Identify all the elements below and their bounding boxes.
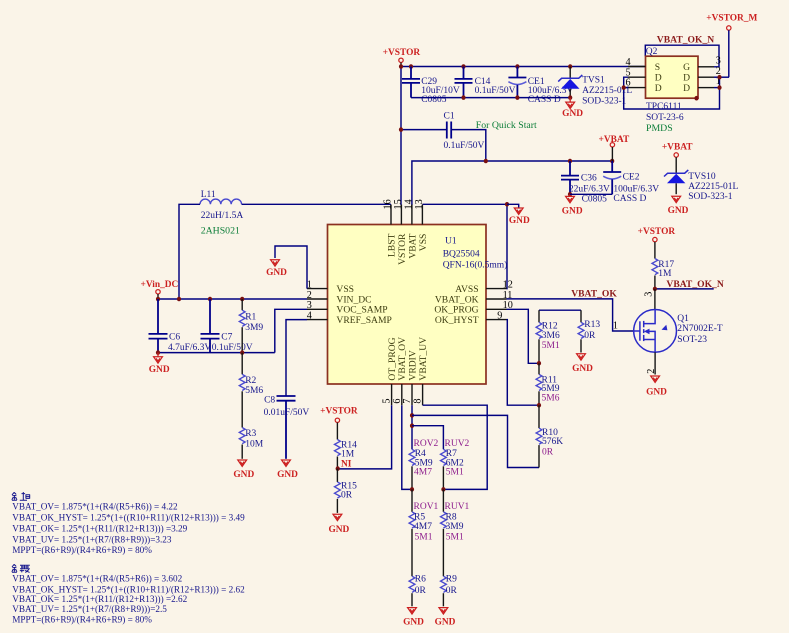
svg-text:RUV1: RUV1	[445, 502, 470, 512]
U1 left pin stubs	[307, 289, 328, 320]
svg-text:0R: 0R	[341, 490, 353, 500]
U1 right pin numbers	[497, 279, 513, 321]
svg-text:100uF/6.3V: 100uF/6.3V	[613, 184, 659, 194]
svg-text:GND: GND	[277, 470, 298, 480]
junction dot ROV mid	[410, 487, 414, 492]
TVS diode TVS10	[664, 170, 739, 202]
svg-text:+VSTOR: +VSTOR	[638, 227, 676, 237]
Q2 pin 2 wire	[698, 76, 729, 78]
wire VBAT_OK_N to Q2 gate	[645, 45, 719, 67]
U1 top pin stubs	[391, 205, 422, 225]
svg-text:GND: GND	[403, 617, 424, 627]
U1 right pin names	[434, 284, 478, 326]
svg-text:GND: GND	[562, 109, 583, 119]
U1 left pin numbers	[307, 279, 312, 321]
svg-text:VBAT_OK= 1.25*(1+(R11/(R12+R13: VBAT_OK= 1.25*(1+(R11/(R12+R13))) =3.29	[12, 524, 187, 534]
resistor R6	[409, 575, 426, 607]
resistor R15	[335, 469, 358, 513]
svg-text:5M6: 5M6	[542, 394, 560, 404]
svg-text:VBAT_OK_HYST= 1.25*(1+((R10+R1: VBAT_OK_HYST= 1.25*(1+((R10+R11)/(R12+R1…	[12, 584, 245, 594]
svg-text:S: S	[655, 62, 660, 73]
junction dot R11 bottom	[537, 403, 541, 408]
capacitor C1 quick start	[444, 112, 485, 151]
ground below TVS10	[668, 196, 689, 216]
svg-text:3M6: 3M6	[542, 331, 560, 341]
svg-text:C36: C36	[581, 174, 597, 184]
svg-text:0.01uF/50V: 0.01uF/50V	[264, 408, 310, 418]
svg-text:R7: R7	[446, 449, 457, 459]
junction dots VBAT rail	[484, 159, 615, 164]
svg-text:4M7: 4M7	[414, 522, 432, 532]
svg-text:10M: 10M	[245, 439, 264, 449]
svg-text:0R: 0R	[446, 586, 458, 596]
transistor Q2 body	[646, 47, 699, 98]
svg-text:7: 7	[402, 399, 413, 404]
U1 bottom pin stubs	[392, 384, 423, 405]
power port +VSTOR_M	[706, 13, 757, 77]
svg-text:C7: C7	[221, 333, 232, 343]
svg-text:GND: GND	[149, 365, 170, 375]
power port +VBAT first	[599, 135, 630, 161]
transistor Q1 NMOS	[634, 310, 723, 353]
ground below R15	[328, 514, 349, 535]
resistor R10	[536, 405, 563, 467]
svg-text:MPPT=(R6+R9)/(R4+R6+R9) = 80%: MPPT=(R6+R9)/(R4+R6+R9) = 80%	[12, 615, 152, 625]
svg-text:VSTOR: VSTOR	[397, 233, 408, 265]
ground left of U1 pin1	[266, 246, 307, 289]
svg-text:5M1: 5M1	[415, 533, 433, 543]
svg-text:AZ2215-01L: AZ2215-01L	[688, 182, 738, 192]
svg-text:22uF/6.3V: 22uF/6.3V	[569, 184, 610, 194]
IC U1 body	[328, 225, 508, 385]
Q2 footprint labels	[646, 102, 684, 134]
svg-text:5M1: 5M1	[446, 468, 464, 478]
svg-text:R13: R13	[584, 320, 600, 330]
svg-text:RUV2: RUV2	[445, 439, 470, 449]
svg-text:VBAT_UV= 1.25*(1+(R7/(R8+R9))): VBAT_UV= 1.25*(1+(R7/(R8+R9)))=2.5	[12, 604, 167, 614]
junction dot pin12/13	[505, 202, 509, 207]
svg-text:8: 8	[413, 399, 424, 404]
svg-text:GND: GND	[328, 525, 349, 535]
junction dots caps bottom rail	[461, 95, 572, 100]
svg-text:C1: C1	[444, 112, 455, 122]
resistor R4 ROV2	[409, 439, 438, 489]
ground below R6	[403, 608, 424, 628]
svg-text:+Vin_DC: +Vin_DC	[141, 280, 179, 290]
resistor R17	[652, 259, 674, 289]
svg-text:CE2: CE2	[623, 173, 640, 183]
svg-text:5M6: 5M6	[245, 386, 263, 396]
U1 top pin numbers 16 15 14 13	[382, 199, 424, 209]
wire pin12 riser	[506, 204, 509, 288]
wire bottom Vin cap rail	[158, 352, 275, 354]
svg-text:14: 14	[403, 199, 414, 209]
wire Q2 drains left loop	[624, 77, 720, 109]
Q2 pin 3 stub	[698, 66, 714, 68]
svg-text:C0805: C0805	[421, 95, 447, 105]
svg-text:R5: R5	[414, 513, 425, 523]
svg-text:GND: GND	[509, 216, 530, 226]
junction dot VRDIV lower	[410, 423, 414, 428]
power port +VBAT second	[662, 142, 693, 173]
svg-text:SOT-23: SOT-23	[677, 335, 707, 345]
svg-text:GND: GND	[233, 470, 254, 480]
Q2 pin 4 stub	[628, 66, 646, 68]
TVS diode TVS1	[558, 67, 632, 107]
resistor R13	[578, 310, 600, 352]
capacitor C8	[264, 396, 310, 459]
svg-text:VBAT_OK_HYST= 1.25*(1+((R10+R1: VBAT_OK_HYST= 1.25*(1+((R10+R11)/(R12+R1…	[12, 513, 245, 523]
svg-text:D: D	[683, 72, 690, 83]
capacitor C14	[455, 67, 516, 98]
wire C1 left	[401, 129, 447, 131]
Q2 pin 6 wire	[628, 87, 646, 89]
wire CE2 bottom to C36 bottom	[570, 193, 612, 195]
label lithium iron heading	[12, 564, 30, 572]
svg-text:GND: GND	[562, 207, 583, 217]
svg-text:0R: 0R	[584, 331, 596, 341]
svg-text:VBAT_OV= 1.875*(1+(R4/(R5+R6)): VBAT_OV= 1.875*(1+(R4/(R5+R6)) = 4.22	[12, 501, 178, 511]
svg-text:GND: GND	[266, 268, 287, 278]
ground below C36	[562, 194, 583, 216]
svg-text:VBAT_OV= 1.875*(1+(R4/(R5+R6)): VBAT_OV= 1.875*(1+(R4/(R5+R6)) = 3.602	[12, 573, 182, 583]
Q1 source stem	[654, 352, 656, 374]
svg-text:GND: GND	[435, 617, 456, 627]
svg-text:LBST: LBST	[386, 233, 397, 257]
svg-text:3M9: 3M9	[446, 522, 464, 532]
power port +Vin_DC	[141, 280, 179, 299]
resistor R8 RUV1	[441, 489, 470, 576]
svg-text:G: G	[683, 62, 690, 73]
junction dots Vin rail	[156, 297, 244, 302]
svg-text:SOD-323-1: SOD-323-1	[582, 96, 627, 106]
svg-text:0.1uF/50V: 0.1uF/50V	[212, 343, 253, 353]
svg-text:5M1: 5M1	[542, 341, 560, 351]
svg-text:QFN-16(0.5mm): QFN-16(0.5mm)	[443, 260, 508, 271]
junction dot R14 R15	[336, 466, 340, 471]
wire caps bottom rail	[411, 97, 570, 99]
junction dot C36 bottom	[568, 192, 572, 197]
wire VBAT rail	[412, 161, 612, 205]
ground at pin13	[507, 204, 530, 226]
U1 top pin names	[386, 233, 428, 265]
svg-text:12: 12	[503, 279, 513, 290]
svg-text:D: D	[655, 83, 662, 94]
svg-text:1M: 1M	[341, 450, 355, 460]
svg-text:1M: 1M	[658, 269, 672, 279]
svg-text:VBAT_OK: VBAT_OK	[571, 289, 617, 300]
svg-text:C8: C8	[264, 396, 275, 406]
svg-text:R12: R12	[542, 322, 558, 332]
svg-text:GND: GND	[668, 206, 689, 216]
resistor R2	[239, 353, 263, 428]
svg-text:VREF_SAMP: VREF_SAMP	[336, 315, 391, 326]
wire pin11 VBAT_OK	[507, 299, 634, 331]
ground below C8	[277, 460, 298, 480]
wire pin3 VOC_SAMP	[275, 309, 307, 352]
svg-text:+VBAT: +VBAT	[662, 142, 693, 152]
resistor R12	[536, 310, 560, 363]
ground below Q1	[646, 376, 667, 397]
svg-text:VSS: VSS	[336, 284, 354, 295]
svg-text:2AHS021: 2AHS021	[201, 225, 240, 236]
Q2 pin numbers	[626, 55, 721, 88]
wire VRDIV to R10 bottom	[412, 415, 539, 467]
svg-text:R6: R6	[415, 575, 426, 585]
ground below R13	[572, 354, 593, 374]
svg-text:3M9: 3M9	[245, 323, 263, 333]
svg-text:3: 3	[716, 55, 721, 66]
svg-text:TVS10: TVS10	[688, 172, 716, 182]
svg-text:R4: R4	[415, 449, 426, 459]
junction dot R17 drain	[653, 287, 657, 292]
inductor L11	[200, 190, 243, 236]
capacitor CE1 polarized	[508, 67, 573, 105]
ground below R3	[233, 460, 254, 480]
svg-text:1: 1	[613, 320, 618, 331]
wire pin9 OK_HYST	[507, 320, 540, 406]
svg-text:CASS D: CASS D	[528, 95, 561, 105]
svg-text:Q1: Q1	[677, 314, 689, 324]
wire R12 R13 bridge	[539, 309, 581, 311]
junction dots top rail	[399, 64, 572, 69]
svg-text:16: 16	[382, 199, 393, 209]
svg-text:9: 9	[497, 310, 502, 321]
svg-text:R8: R8	[446, 513, 457, 523]
power port +VSTOR at Q1	[638, 227, 676, 258]
svg-text:R2: R2	[245, 376, 256, 386]
resistor R7 RUV2	[441, 439, 470, 489]
svg-text:R1: R1	[245, 313, 256, 323]
svg-text:0R: 0R	[415, 586, 427, 596]
resistor R3	[239, 428, 263, 459]
power port +VSTOR at R14	[320, 407, 358, 440]
capacitor CE2 polarized	[603, 161, 659, 204]
junction dot R12 bottom	[537, 361, 541, 366]
svg-text:CASS D: CASS D	[613, 194, 646, 204]
svg-text:D: D	[655, 72, 662, 83]
svg-text:+VSTOR: +VSTOR	[320, 407, 358, 417]
wire pin13 to GND corner	[422, 203, 507, 205]
resistor R9	[441, 575, 458, 607]
resistor R1	[239, 299, 263, 353]
junction dots bottom rail	[156, 350, 244, 355]
resistor R14	[335, 440, 358, 469]
svg-text:R3: R3	[245, 429, 256, 439]
ground below TVS1	[562, 98, 583, 119]
svg-text:4: 4	[307, 310, 312, 321]
svg-text:C6: C6	[169, 333, 180, 343]
svg-text:5M1: 5M1	[446, 533, 464, 543]
wire pin8 VBAT_UV	[423, 405, 488, 489]
U1 left pin names	[336, 284, 391, 326]
svg-text:C0805: C0805	[582, 195, 608, 205]
svg-text:PMDS: PMDS	[646, 123, 673, 134]
svg-text:VBAT: VBAT	[407, 233, 418, 258]
svg-text:VBAT_UV= 1.25*(1+(R7/(R8+R9))): VBAT_UV= 1.25*(1+(R7/(R8+R9)))=3.23	[12, 535, 172, 545]
svg-text:SOT-23-6: SOT-23-6	[646, 113, 684, 123]
capacitor C29	[402, 67, 460, 105]
svg-text:BQ25504: BQ25504	[443, 250, 480, 260]
svg-text:For Quick Start: For Quick Start	[476, 120, 537, 131]
svg-text:NI: NI	[341, 459, 352, 469]
ground below R9	[435, 608, 456, 628]
wire Vin rail	[158, 298, 307, 300]
svg-text:4M7: 4M7	[414, 468, 432, 478]
wire pin6 VBAT_OV	[402, 405, 412, 489]
U1 bottom pin names	[387, 337, 429, 381]
svg-text:TPC6111: TPC6111	[646, 102, 682, 112]
svg-text:MPPT=(R6+R9)/(R4+R6+R9) = 80%: MPPT=(R6+R9)/(R4+R6+R9) = 80%	[12, 545, 152, 555]
svg-text:0R: 0R	[542, 448, 554, 458]
svg-text:0.1uF/50V: 0.1uF/50V	[444, 141, 485, 151]
wire VSTOR vertical to pin15	[400, 67, 402, 206]
svg-text:VBAT_UV: VBAT_UV	[418, 337, 429, 381]
Q2 pin names	[655, 62, 690, 94]
wire pin5 OT_PROG	[338, 405, 392, 469]
wire VSTOR top rail	[401, 66, 646, 68]
svg-text:TVS1: TVS1	[582, 76, 605, 86]
junction dot C1 tap	[399, 127, 403, 132]
wire C1 right to VBAT rail	[451, 130, 486, 161]
svg-text:VSS: VSS	[418, 234, 429, 252]
svg-text:13: 13	[414, 199, 425, 209]
junction dots Q2	[622, 75, 722, 101]
wire pin10 OK_PROG	[507, 309, 540, 363]
Q2 pin 1 wire	[698, 87, 720, 89]
svg-text:4.7uF/6.3V: 4.7uF/6.3V	[168, 343, 211, 353]
svg-text:D: D	[683, 83, 690, 94]
svg-text:GND: GND	[646, 387, 667, 397]
svg-text:AVSS: AVSS	[455, 284, 478, 295]
wire VRDIV to RUV2 top	[412, 426, 443, 450]
svg-text:Q2: Q2	[646, 47, 658, 57]
resistor R5 ROV1	[409, 489, 438, 576]
ground below C6	[149, 353, 170, 375]
U1 bottom pin numbers 5 6 7 8	[382, 399, 424, 404]
svg-text:VBAT_OK= 1.25*(1+(R11/(R12+R13: VBAT_OK= 1.25*(1+(R11/(R12+R13))) =2.62	[12, 594, 187, 604]
svg-text:OK_HYST: OK_HYST	[435, 315, 479, 326]
svg-text:ROV2: ROV2	[414, 439, 439, 449]
Q2 pin 5 wire	[628, 76, 646, 78]
svg-text:U1: U1	[445, 237, 457, 247]
capacitor C36	[561, 161, 610, 205]
wire L11 left to Vin rail	[179, 204, 200, 299]
resistor R11	[536, 363, 560, 405]
svg-text:15: 15	[393, 199, 404, 209]
svg-text:VRDIV: VRDIV	[407, 350, 418, 380]
svg-text:2N7002E-T: 2N7002E-T	[677, 324, 723, 334]
svg-text:576K: 576K	[542, 437, 563, 447]
svg-text:ROV1: ROV1	[414, 502, 439, 512]
capacitor C6	[149, 299, 212, 353]
svg-text:SOD-323-1: SOD-323-1	[688, 192, 733, 202]
svg-text:+VSTOR: +VSTOR	[383, 48, 421, 58]
svg-text:22uH/1.5A: 22uH/1.5A	[201, 211, 244, 221]
svg-text:VBAT_OK_N: VBAT_OK_N	[657, 34, 714, 45]
svg-text:+VSTOR_M: +VSTOR_M	[706, 13, 757, 23]
Q1 drain stem	[654, 289, 656, 310]
power port +VSTOR	[383, 48, 421, 67]
capacitor C7	[201, 299, 253, 353]
svg-text:L11: L11	[201, 190, 216, 200]
U1 right pin stubs	[486, 289, 507, 320]
svg-text:R9: R9	[446, 575, 457, 585]
wire pin4 VREF_SAMP	[286, 320, 307, 396]
junction dot VRDIV upper	[410, 413, 414, 418]
svg-text:GND: GND	[572, 364, 593, 374]
svg-text:0.1uF/50V: 0.1uF/50V	[475, 86, 516, 96]
label lithium cobalt heading	[12, 492, 30, 500]
svg-text:3: 3	[643, 292, 654, 297]
junction dot RUV mid	[441, 487, 445, 492]
wire pin7 VRDIV column	[411, 405, 413, 449]
wire VBAT_OK_N stub	[655, 288, 714, 290]
wire L11 right to pin16	[242, 203, 391, 205]
